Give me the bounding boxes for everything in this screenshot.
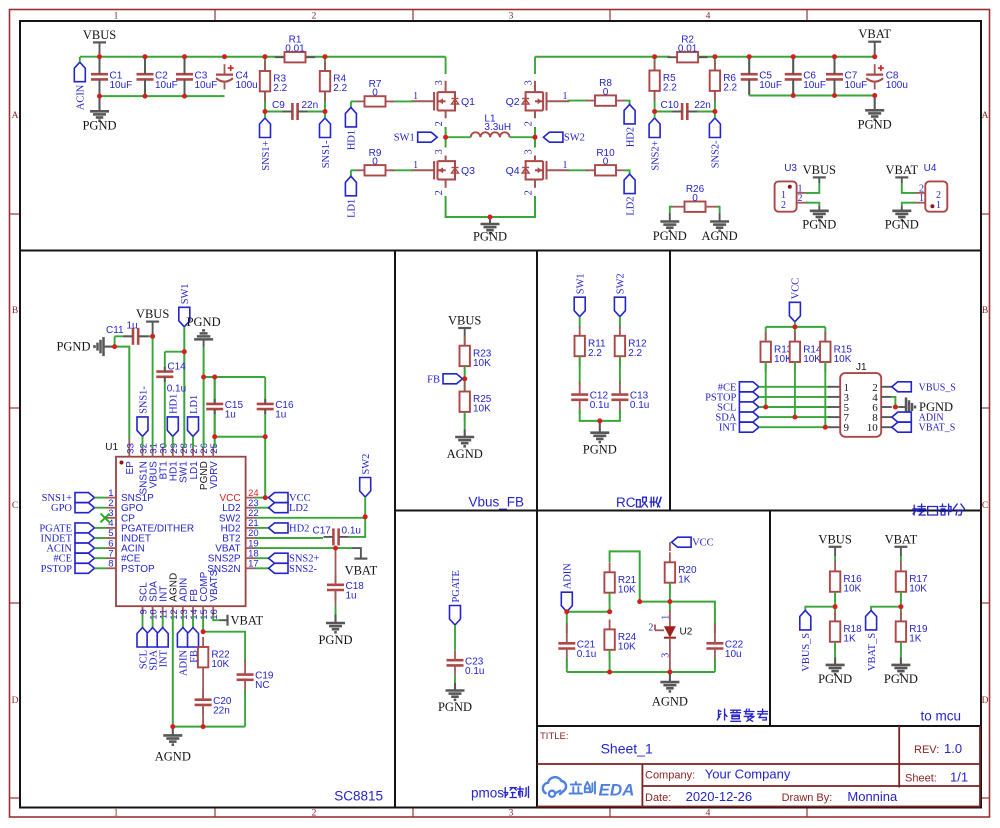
transistor Q2 nmos mirrored bbox=[546, 92, 548, 110]
svg-text:10u: 10u bbox=[725, 649, 742, 660]
net flag LD2 at pin23 bbox=[255, 507, 269, 509]
svg-text:VBAT_S: VBAT_S bbox=[919, 423, 956, 434]
svg-text:1K: 1K bbox=[678, 575, 691, 586]
ic U1 top pin numbers and stubs bbox=[142, 447, 144, 457]
svg-text:0: 0 bbox=[603, 87, 609, 98]
svg-text:VBAT: VBAT bbox=[885, 163, 918, 177]
svg-text:2: 2 bbox=[648, 622, 653, 633]
svg-text:1u: 1u bbox=[275, 410, 286, 421]
net flag LD1 bbox=[351, 169, 357, 171]
svg-text:Date:: Date: bbox=[645, 792, 671, 804]
resistor R5 bbox=[654, 57, 656, 112]
svg-text:10K: 10K bbox=[618, 585, 636, 596]
capacitor C9 bbox=[265, 111, 325, 113]
resistor R26 bbox=[684, 206, 686, 208]
net flag SW2 above bbox=[360, 478, 371, 498]
svg-text:ACIN: ACIN bbox=[76, 84, 87, 110]
section divider horizontal y=510 bbox=[395, 510, 981, 512]
resistor R7 gate bbox=[390, 100, 413, 102]
svg-text:10: 10 bbox=[867, 422, 879, 434]
wire SW1 node bbox=[445, 127, 447, 148]
svg-text:VCC: VCC bbox=[791, 278, 802, 299]
svg-text:AGND: AGND bbox=[447, 447, 483, 461]
ground PGND under R19 bbox=[900, 642, 902, 658]
net flag SW2 arrow bbox=[543, 132, 563, 142]
wire Q2 drain from VBAT bus bbox=[534, 57, 536, 74]
wire to VBAT_S flag bbox=[871, 607, 901, 611]
svg-text:3: 3 bbox=[434, 80, 445, 85]
svg-text:EDA: EDA bbox=[599, 781, 635, 800]
svg-text:U1: U1 bbox=[105, 442, 118, 453]
section divider vertical x=395 bbox=[394, 250, 396, 808]
power flag VBAT at U4 bbox=[895, 176, 908, 178]
svg-text:0: 0 bbox=[692, 193, 698, 204]
ground PGND pmos bbox=[454, 683, 456, 691]
logo LCEDA text bbox=[575, 782, 577, 785]
net flag HD2 at pin21 bbox=[255, 527, 269, 529]
svg-text:VBUS: VBUS bbox=[136, 307, 169, 321]
svg-text:SNS2-: SNS2- bbox=[711, 140, 722, 168]
section divider horizontal y=726 title top bbox=[537, 725, 981, 727]
wire VBAT bus bbox=[535, 56, 655, 58]
svg-text:VBUS_S: VBUS_S bbox=[801, 633, 812, 672]
capacitor C5 bbox=[748, 57, 750, 96]
svg-text:VCC: VCC bbox=[692, 538, 714, 549]
svg-text:PGND: PGND bbox=[187, 315, 221, 329]
svg-text:VBUS: VBUS bbox=[818, 532, 851, 546]
svg-text:C: C bbox=[12, 501, 18, 511]
net flag HD1 bbox=[351, 100, 357, 102]
svg-text:1/1: 1/1 bbox=[950, 770, 968, 785]
svg-text:Vbus_FB: Vbus_FB bbox=[468, 495, 524, 510]
svg-text:B: B bbox=[12, 306, 18, 316]
svg-text:10uF: 10uF bbox=[803, 80, 826, 91]
ground PGND under R18 bbox=[834, 642, 836, 658]
svg-text:SNS1-: SNS1- bbox=[138, 386, 149, 414]
node FB junction bbox=[464, 366, 466, 391]
net flag VCC interface bbox=[789, 302, 800, 322]
power flag VBAT tap bbox=[354, 557, 367, 559]
svg-text:1: 1 bbox=[413, 91, 418, 102]
net flag VCC at pin24 bbox=[269, 493, 289, 503]
resistor R3 bbox=[264, 57, 266, 112]
svg-text:10K: 10K bbox=[473, 404, 491, 415]
net flag VBAT_S at J1 pin10 bbox=[892, 422, 912, 432]
resistor R13 bbox=[765, 327, 767, 342]
resistor R14 bbox=[794, 327, 796, 342]
svg-text:SW1: SW1 bbox=[394, 133, 415, 144]
resistor R21 bbox=[609, 562, 611, 572]
svg-text:1.0: 1.0 bbox=[944, 741, 962, 756]
ic U1 left pin numbers and stubs bbox=[106, 497, 116, 499]
svg-text:0.1u: 0.1u bbox=[342, 525, 361, 536]
svg-text:LD2: LD2 bbox=[289, 503, 308, 514]
ground PGND under C18 bbox=[334, 615, 336, 624]
wire pin24 VCC junction bbox=[255, 497, 269, 499]
svg-text:VBAT: VBAT bbox=[345, 564, 378, 578]
svg-text:VBUS: VBUS bbox=[83, 28, 116, 42]
node VBUS_S junction bbox=[834, 592, 836, 622]
svg-text:INT: INT bbox=[159, 649, 170, 667]
wire SW1 to L1 bbox=[446, 136, 471, 138]
svg-text:SNS2N: SNS2N bbox=[207, 564, 240, 575]
resistor R23 bbox=[464, 337, 466, 345]
wire snubber ground rail bbox=[580, 410, 620, 421]
ic U1 bottom pin numbers and stubs bbox=[142, 606, 144, 616]
wire pin22 SW2 to flag bbox=[255, 517, 365, 518]
svg-text:2: 2 bbox=[312, 808, 317, 818]
svg-text:SW2: SW2 bbox=[361, 454, 372, 475]
capacitor C18 bbox=[335, 548, 337, 583]
section divider vertical x=670 bbox=[669, 250, 671, 510]
resistor R11 bbox=[579, 317, 581, 327]
svg-text:VBAT_S: VBAT_S bbox=[867, 633, 878, 671]
capacitor C10 bbox=[655, 111, 715, 113]
resistor R8 gate bbox=[568, 100, 589, 102]
svg-text:Company:: Company: bbox=[645, 770, 695, 782]
svg-text:3: 3 bbox=[509, 808, 514, 818]
junction dots bbox=[97, 54, 102, 59]
svg-text:2.2: 2.2 bbox=[588, 348, 602, 359]
svg-text:AGND: AGND bbox=[702, 229, 738, 243]
svg-text:PGATE: PGATE bbox=[451, 570, 462, 602]
section divider vertical x=770 bbox=[769, 510, 771, 726]
wire SW2 node bbox=[534, 127, 536, 148]
ground AGND ext ref bbox=[669, 672, 671, 682]
capacitor C17 bootstrap BT2 bbox=[255, 537, 323, 539]
svg-text:22n: 22n bbox=[302, 100, 319, 111]
svg-text:10uF: 10uF bbox=[195, 80, 218, 91]
wire R20 bottom node bbox=[669, 583, 671, 602]
svg-text:PSTOP: PSTOP bbox=[41, 564, 72, 575]
wire pin12 AGND down bbox=[172, 615, 174, 726]
ground PGND left of C11 bbox=[104, 346, 115, 348]
svg-text:A: A bbox=[982, 111, 989, 121]
svg-text:8: 8 bbox=[108, 559, 113, 570]
svg-text:SNS2-: SNS2- bbox=[289, 564, 318, 575]
svg-text:SW2: SW2 bbox=[616, 273, 627, 294]
resistor R6 bbox=[714, 57, 716, 112]
svg-text:NC: NC bbox=[255, 680, 269, 691]
net flag SNS2- bbox=[709, 118, 720, 138]
svg-text:REV:: REV: bbox=[914, 744, 939, 756]
resistor R20 bbox=[669, 542, 671, 551]
svg-text:2.2: 2.2 bbox=[663, 83, 677, 94]
ground PGND under C8 bbox=[874, 96, 876, 111]
svg-text:10uF: 10uF bbox=[759, 80, 782, 91]
svg-text:SNS1-: SNS1- bbox=[321, 140, 332, 168]
capacitor C22 bbox=[714, 643, 717, 648]
svg-text:10uF: 10uF bbox=[155, 80, 178, 91]
logo LCEDA cloud icon bbox=[543, 777, 566, 794]
wire PGATE to C23 bbox=[454, 625, 456, 650]
svg-text:2.2: 2.2 bbox=[333, 83, 347, 94]
svg-text:1K: 1K bbox=[843, 634, 856, 645]
svg-text:10K: 10K bbox=[843, 584, 861, 595]
svg-text:PGND: PGND bbox=[885, 218, 919, 232]
wire R26 right to AGND bbox=[717, 207, 720, 213]
svg-text:VBUS_S: VBUS_S bbox=[919, 382, 956, 393]
svg-text:Drawn By:: Drawn By: bbox=[782, 792, 833, 804]
ic U1 right pin numbers and stubs bbox=[246, 497, 256, 499]
node VBAT_S junction bbox=[900, 592, 902, 622]
net flag SW1 arrow bbox=[418, 132, 438, 142]
resistor R10 gate bbox=[568, 169, 589, 171]
ground AGND below ic bbox=[172, 727, 174, 735]
connector U3 pin 1 wire to VBUS bbox=[797, 192, 808, 194]
connector U3 bbox=[775, 181, 797, 211]
wire COMP to C19 branch bbox=[203, 632, 245, 662]
ground AGND in Vbus_FB bbox=[464, 412, 466, 430]
svg-text:1: 1 bbox=[936, 200, 941, 211]
border frame inner band lines bbox=[214, 10, 216, 21]
svg-text:2: 2 bbox=[434, 121, 445, 126]
svg-text:PGND: PGND bbox=[583, 443, 617, 457]
svg-text:1u: 1u bbox=[346, 590, 357, 601]
svg-text:4: 4 bbox=[706, 808, 711, 818]
svg-text:1: 1 bbox=[413, 160, 418, 171]
svg-text:C17: C17 bbox=[313, 525, 332, 536]
shunt reference U2 TL431 bbox=[669, 602, 671, 612]
svg-text:1u: 1u bbox=[127, 321, 138, 332]
svg-text:U2: U2 bbox=[680, 626, 693, 637]
interface flags #CE PSTOP SCL SDA INT bbox=[739, 382, 759, 392]
wire to VBUS_S flag bbox=[805, 607, 835, 611]
svg-text:1K: 1K bbox=[909, 634, 922, 645]
svg-text:3: 3 bbox=[524, 149, 535, 154]
ground PGND at J1 bbox=[899, 406, 906, 408]
capacitor C7 bbox=[834, 57, 836, 96]
net flag VBAT_S bbox=[866, 610, 877, 630]
power flag VBAT to-mcu divider bbox=[894, 546, 907, 548]
svg-text:10uF: 10uF bbox=[845, 80, 868, 91]
ground PGND R26 bbox=[669, 213, 671, 222]
svg-text:10K: 10K bbox=[803, 354, 821, 365]
svg-text:Q3: Q3 bbox=[461, 165, 475, 177]
svg-text:2: 2 bbox=[781, 200, 786, 211]
svg-text:0: 0 bbox=[372, 88, 378, 99]
svg-text:10K: 10K bbox=[834, 354, 852, 365]
svg-text:2.2: 2.2 bbox=[723, 83, 737, 94]
wire R21 bottom ADIN node bbox=[609, 593, 611, 612]
svg-text:PSTOP: PSTOP bbox=[121, 564, 155, 575]
connector U4 bbox=[925, 181, 947, 211]
svg-text:PGND: PGND bbox=[438, 700, 472, 714]
net flag FB arrow bbox=[443, 374, 463, 384]
net flag ADIN at J1 pin8 bbox=[892, 412, 912, 422]
svg-text:A: A bbox=[12, 111, 19, 121]
svg-text:0: 0 bbox=[372, 157, 378, 168]
svg-text:HD2: HD2 bbox=[625, 127, 636, 147]
svg-text:LD1: LD1 bbox=[189, 395, 200, 414]
resistor R4 bbox=[324, 57, 326, 112]
capacitor C16 bbox=[264, 377, 266, 437]
svg-text:D: D bbox=[982, 696, 989, 706]
power flag VBUS at U3 bbox=[813, 176, 826, 178]
wire C15 C16 bottom rail to VCC pin24 bbox=[215, 437, 266, 498]
ground PGND under C1 bbox=[98, 96, 100, 111]
wire EP pin33 to pgnd bbox=[115, 347, 130, 439]
section divider vertical x=537 bbox=[536, 250, 538, 808]
ground AGND R26 bbox=[719, 213, 721, 222]
connector J1 body bbox=[840, 373, 881, 437]
svg-text:2: 2 bbox=[524, 121, 535, 126]
svg-text:10K: 10K bbox=[211, 659, 229, 670]
net flag SNS2+ bbox=[649, 118, 660, 138]
svg-text:100u: 100u bbox=[886, 80, 908, 91]
resistor R9 gate bbox=[390, 169, 413, 171]
wire AGND rail below ic bbox=[173, 726, 245, 728]
power flag VBAT at pin16 bbox=[226, 615, 228, 626]
svg-text:PGND: PGND bbox=[56, 340, 90, 354]
svg-text:2: 2 bbox=[434, 190, 445, 195]
svg-text:VBAT: VBAT bbox=[231, 614, 264, 628]
svg-text:22n: 22n bbox=[694, 100, 711, 111]
net flag SNS1- above ic bbox=[137, 417, 148, 437]
svg-text:U4: U4 bbox=[924, 163, 937, 174]
resistor R16 bbox=[834, 561, 836, 571]
resistor R22 bbox=[202, 637, 204, 647]
svg-text:VBUS: VBUS bbox=[448, 314, 481, 328]
connector U3 pin 2 wire to PGND bbox=[797, 202, 808, 204]
svg-text:AGND: AGND bbox=[652, 695, 688, 709]
transistor Q3 nmos bbox=[433, 161, 435, 179]
svg-text:10K: 10K bbox=[618, 642, 636, 653]
capacitor C14 bootstrap bbox=[165, 351, 185, 353]
section divider horizontal y=250 bbox=[20, 250, 981, 252]
svg-text:B: B bbox=[982, 306, 988, 316]
net flag VBUS_S bbox=[800, 610, 811, 630]
svg-text:Monnina: Monnina bbox=[847, 789, 898, 804]
svg-text:PGND: PGND bbox=[653, 229, 687, 243]
svg-text:HD1: HD1 bbox=[169, 394, 180, 414]
svg-text:HD1: HD1 bbox=[347, 130, 358, 150]
net flag ACIN bbox=[80, 56, 100, 58]
svg-text:3: 3 bbox=[434, 149, 445, 154]
wire L1 to SW2 node bbox=[510, 136, 535, 138]
svg-text:1: 1 bbox=[114, 808, 119, 818]
net flag VBUS_S at J1 pin2 bbox=[892, 382, 912, 392]
wire ext ref ground rail bbox=[567, 671, 715, 673]
svg-text:PGND: PGND bbox=[473, 229, 507, 243]
svg-text:EP: EP bbox=[125, 461, 136, 475]
wire C23 to PGND bbox=[454, 675, 456, 683]
svg-text:1: 1 bbox=[919, 193, 924, 204]
ground PGND at U3 bbox=[818, 206, 820, 211]
svg-text:pmos: pmos bbox=[471, 786, 504, 801]
power flag VBAT top bbox=[874, 42, 876, 57]
svg-text:10K: 10K bbox=[909, 584, 927, 595]
net flag LD2 bbox=[625, 170, 630, 174]
svg-text:Sheet:: Sheet: bbox=[905, 773, 937, 785]
wire J1 pin4 to pin6 PGND bbox=[892, 397, 896, 407]
bottom flags ADIN FB bbox=[182, 615, 184, 627]
svg-text:D: D bbox=[12, 696, 19, 706]
inductor L1 bbox=[471, 132, 510, 137]
svg-text:PGND: PGND bbox=[82, 118, 116, 132]
resistor R19 bbox=[900, 611, 902, 621]
power flag VBUS at pin31 bbox=[152, 322, 154, 337]
capacitor C21 bbox=[566, 612, 568, 633]
ground PGND inverted at pin26 bbox=[203, 339, 205, 347]
net flag SW1 in RC section bbox=[574, 297, 585, 317]
svg-text:SC8815: SC8815 bbox=[334, 789, 383, 804]
svg-text:3.3uH: 3.3uH bbox=[484, 122, 511, 133]
svg-text:0.01: 0.01 bbox=[285, 43, 305, 54]
capacitor C3 bbox=[184, 57, 186, 96]
capacitor C4 electrolytic bbox=[216, 73, 233, 75]
svg-text:to mcu: to mcu bbox=[920, 709, 961, 724]
svg-text:Your Company: Your Company bbox=[705, 767, 791, 782]
svg-text:ADIN: ADIN bbox=[563, 563, 574, 589]
ground PGND under bridge bbox=[489, 217, 491, 224]
capacitor C12 bbox=[579, 356, 581, 384]
capacitor C20 bbox=[202, 677, 204, 697]
net flag SW1 above ic bbox=[179, 307, 190, 327]
svg-text:C14: C14 bbox=[167, 361, 186, 372]
svg-text:2.2: 2.2 bbox=[628, 348, 642, 359]
capacitor C1 bbox=[99, 57, 101, 96]
svg-text:10uF: 10uF bbox=[110, 80, 133, 91]
svg-text:RC: RC bbox=[616, 495, 636, 510]
section label interface bbox=[913, 505, 915, 515]
svg-text:SW1: SW1 bbox=[180, 284, 191, 305]
svg-text:0.01: 0.01 bbox=[678, 43, 698, 54]
ground PGND snubber bbox=[599, 421, 601, 433]
wire VBAT caps bottom rail bbox=[749, 95, 875, 97]
wire SW1 to pin28 bbox=[183, 327, 185, 448]
svg-text:PGND: PGND bbox=[858, 117, 892, 131]
bottom flags SCL SDA INT bbox=[142, 615, 144, 627]
svg-text:PGND: PGND bbox=[318, 633, 352, 647]
svg-text:2.2: 2.2 bbox=[273, 83, 287, 94]
left flags SNS1+ GPO bbox=[75, 493, 95, 503]
svg-text:INT: INT bbox=[719, 423, 737, 434]
svg-text:LD1: LD1 bbox=[347, 199, 358, 218]
svg-text:Q2: Q2 bbox=[506, 96, 520, 108]
svg-text:PGND: PGND bbox=[818, 672, 852, 686]
capacitor C8 electrolytic bbox=[866, 73, 883, 75]
svg-text:33: 33 bbox=[125, 443, 136, 454]
net flag VCC ext ref bbox=[672, 537, 692, 547]
svg-text:SNS2+: SNS2+ bbox=[650, 140, 661, 170]
svg-text:16: 16 bbox=[209, 609, 220, 620]
power flag VBUS in Vbus_FB bbox=[458, 327, 471, 329]
wire left branch to R21 top bbox=[610, 551, 640, 601]
svg-text:100u: 100u bbox=[236, 80, 258, 91]
svg-text:2: 2 bbox=[524, 190, 535, 195]
capacitor C2 bbox=[144, 57, 146, 96]
no-connect X on pin 3 CP bbox=[101, 514, 110, 523]
svg-text:1: 1 bbox=[661, 615, 672, 620]
transistor Q4 nmos mirrored bbox=[546, 161, 548, 179]
wire pin26 PGND bbox=[203, 347, 205, 447]
svg-text:SW2: SW2 bbox=[564, 133, 585, 144]
wire VCC pullup rail bbox=[794, 322, 796, 327]
svg-text:AGND: AGND bbox=[155, 750, 191, 764]
svg-text:LD2: LD2 bbox=[625, 197, 636, 216]
svg-text:C10: C10 bbox=[661, 100, 680, 111]
wire ADIN node rail bbox=[567, 611, 610, 613]
net flag ADIN ext ref bbox=[561, 592, 572, 612]
net flag HD1 above ic bbox=[167, 417, 178, 437]
svg-text:PGND: PGND bbox=[884, 672, 918, 686]
power flag VBUS to-mcu divider bbox=[829, 546, 842, 548]
wire Q3 source to ground rail bbox=[446, 196, 535, 217]
ground PGND at U4 bbox=[901, 206, 903, 211]
wire pin19 VBAT node bbox=[255, 547, 352, 549]
svg-text:2: 2 bbox=[798, 193, 803, 204]
